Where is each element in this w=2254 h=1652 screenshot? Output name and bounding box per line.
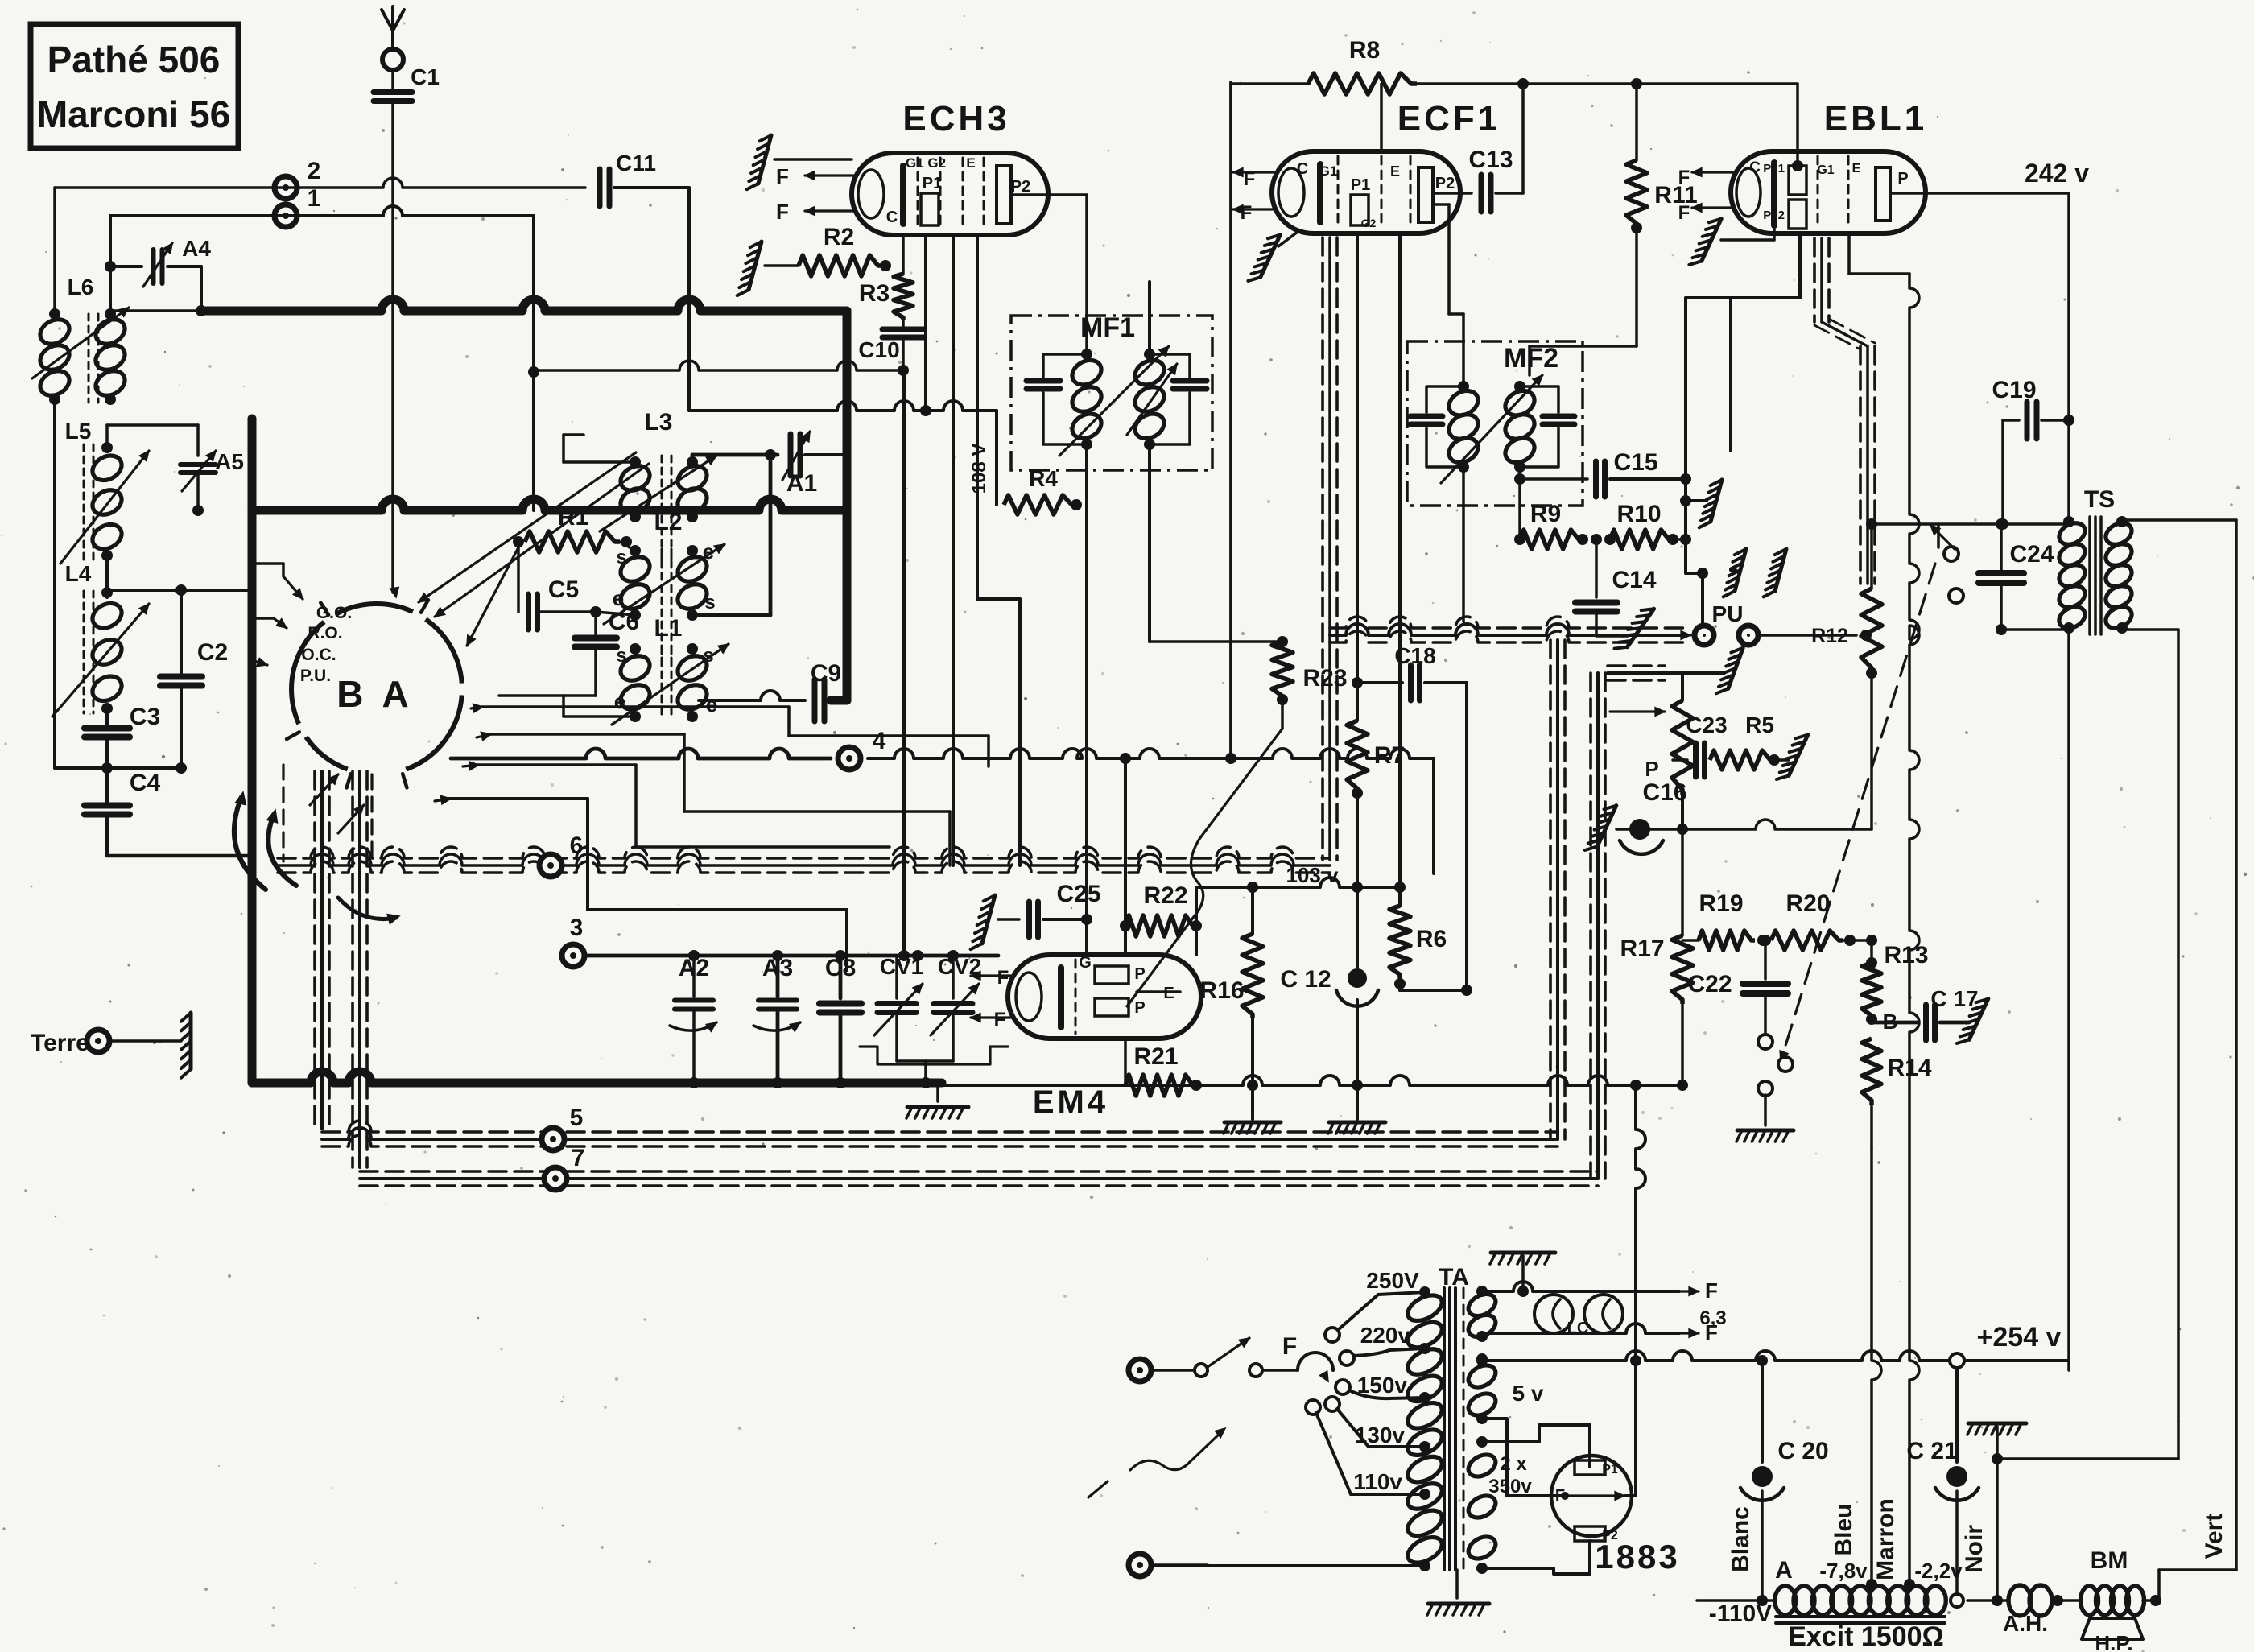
- voltage tap selector: [1306, 1292, 1425, 1494]
- resistor R20: [1771, 890, 1877, 950]
- trimmer capacitor A3: [753, 950, 800, 1088]
- svg-text:C1: C1: [411, 64, 440, 89]
- svg-text:P: P: [1134, 965, 1145, 983]
- capacitor C20: [1740, 1367, 1829, 1606]
- wire L1 loop: [563, 696, 635, 717]
- svg-text:250V: 250V: [1366, 1268, 1419, 1293]
- svg-text:130v: 130v: [1355, 1423, 1406, 1448]
- shielded wire 6: [278, 832, 1330, 877]
- rotor arrow of BA: [234, 792, 399, 924]
- ground under switch: [1737, 1129, 1794, 1133]
- svg-text:E: E: [966, 155, 975, 171]
- svg-text:2 x: 2 x: [1500, 1453, 1527, 1475]
- mains terminal top: [1129, 1359, 1193, 1381]
- wire C15 down to PU: [1686, 539, 1708, 624]
- svg-text:Noir: Noir: [1961, 1525, 1988, 1573]
- svg-text:R17: R17: [1620, 935, 1664, 962]
- TA core: [1444, 1288, 1463, 1570]
- svg-text:P1: P1: [1602, 1463, 1618, 1476]
- dial lamps LC: [1534, 1291, 1623, 1337]
- ground at Terre: [189, 1013, 193, 1069]
- pickup terminals PU: [1695, 601, 1872, 647]
- svg-text:P: P: [1134, 999, 1145, 1017]
- capacitor C6: [499, 609, 639, 696]
- ground at R5: [1789, 735, 1808, 776]
- capacitor C9: [699, 660, 847, 721]
- resistor R6: [1389, 887, 1472, 996]
- tube ECF1: [1272, 99, 1501, 233]
- variable capacitor CV2: [860, 950, 1008, 1088]
- svg-text:A: A: [1775, 1557, 1793, 1584]
- svg-text:F: F: [1244, 168, 1256, 190]
- terminal 3 and wire 3: [562, 915, 998, 967]
- ground at C16: [1597, 806, 1616, 847]
- svg-text:F: F: [1705, 1278, 1718, 1303]
- terminal 4 and wire 4: [451, 728, 1434, 873]
- wire left vertical: [53, 188, 56, 316]
- wire pot P wiper arrow: [1610, 708, 1665, 781]
- thick bus mid: [252, 499, 847, 510]
- wire EBL1 cathode down to Excit tap: [1909, 274, 1919, 1584]
- shielded wire EBL1 grid: [1814, 238, 1875, 584]
- svg-text:R3: R3: [859, 280, 890, 307]
- capacitor C2: [160, 590, 228, 774]
- resistor R1: [513, 504, 635, 612]
- potentiometer R12: [1861, 518, 1938, 679]
- vertical ECF1 E down: [1398, 233, 1402, 887]
- shielded vertical to detector: [1591, 666, 1724, 1179]
- ground at EBL1: [1689, 219, 1774, 265]
- svg-text:Vert: Vert: [2201, 1514, 2227, 1559]
- svg-text:C2: C2: [197, 639, 228, 666]
- svg-text:R16: R16: [1199, 977, 1244, 1004]
- svg-text:TA: TA: [1439, 1264, 1469, 1291]
- svg-text:150v: 150v: [1357, 1373, 1408, 1398]
- coil L1: [612, 615, 729, 725]
- wire 460 horizontal: [534, 361, 903, 370]
- svg-text:C9: C9: [811, 660, 841, 687]
- svg-text:F: F: [1678, 202, 1690, 224]
- BA spoke staircase 1: [471, 704, 989, 766]
- svg-text:1883: 1883: [1595, 1538, 1679, 1576]
- wire -110V: [1697, 1600, 1776, 1627]
- svg-text:-7,8v: -7,8v: [1819, 1559, 1868, 1583]
- terminal 2: [275, 158, 320, 199]
- wire C3-C4: [55, 737, 181, 803]
- arrows into BA neck: [310, 774, 364, 833]
- svg-text:R19: R19: [1699, 890, 1743, 917]
- wire +254v rail: [1476, 1322, 2069, 1368]
- wire ECH3 P2 to MF1: [1011, 195, 1087, 354]
- resistor R13: [1862, 940, 1929, 1034]
- svg-text:+254 v: +254 v: [1977, 1322, 2062, 1353]
- ground near C21: [1967, 1423, 2178, 1606]
- resistor R4: [1004, 466, 1082, 514]
- Terre terminal: [31, 1030, 181, 1056]
- svg-text:EM4: EM4: [1033, 1084, 1108, 1120]
- capacitor C23 and resistor R5: [1673, 712, 1789, 777]
- svg-text:P2: P2: [1435, 175, 1455, 192]
- svg-text:C19: C19: [1992, 377, 2036, 403]
- svg-text:H.P.: H.P.: [2095, 1631, 2132, 1652]
- svg-text:4: 4: [873, 728, 886, 754]
- wire EM4 E to R16: [1161, 990, 1180, 993]
- fuse F: [1262, 1333, 1333, 1381]
- switch near C22: [1758, 1035, 1793, 1125]
- svg-text:TS: TS: [2084, 486, 2115, 513]
- capacitor C15: [1514, 298, 1691, 545]
- thick bottom bus continuation: [942, 1076, 1682, 1085]
- svg-text:C6: C6: [609, 609, 639, 635]
- ground under CV: [906, 1083, 968, 1118]
- svg-text:C13: C13: [1468, 147, 1513, 173]
- band labels G.O. R.O. O.C. P.U.: [300, 604, 352, 685]
- resistor R21: [1125, 1039, 1202, 1096]
- rectifier tube 1883: [1550, 1456, 1680, 1576]
- wire 1: [105, 206, 539, 510]
- capacitor C17: [1872, 986, 1979, 1040]
- wire MF1 right coil up: [1148, 282, 1151, 354]
- svg-text:L6: L6: [68, 275, 94, 299]
- svg-text:PU: PU: [1712, 601, 1744, 626]
- svg-text:L2: L2: [654, 509, 682, 535]
- resistor R23: [1150, 636, 1348, 705]
- vertical from ECH3 E: [977, 235, 1020, 865]
- ground at ECH3 top: [747, 135, 852, 189]
- tone switch: [1930, 524, 1963, 603]
- transformer MF1: [1026, 312, 1207, 456]
- ground TA core bottom: [1427, 1570, 1489, 1615]
- svg-text:C5: C5: [548, 576, 579, 603]
- svg-text:3: 3: [570, 915, 584, 941]
- wire EM4 G: [1085, 919, 1088, 955]
- svg-text:108 V: 108 V: [968, 444, 990, 494]
- mains switch: [1195, 1338, 1262, 1377]
- trimmer capacitor A1: [782, 432, 847, 497]
- svg-text:103 v: 103 v: [1286, 863, 1339, 887]
- svg-text:G1: G1: [1817, 163, 1834, 177]
- capacitor C13: [1433, 84, 1523, 212]
- resistor R14: [1862, 1039, 1932, 1147]
- svg-text:R1: R1: [558, 504, 588, 531]
- svg-text:Bleu: Bleu: [1831, 1503, 1857, 1555]
- svg-text:C3: C3: [130, 704, 160, 730]
- wire R14 down to Excit tap: [1872, 1147, 1881, 1584]
- capacitor C8: [819, 950, 861, 1088]
- svg-text:F: F: [1241, 202, 1253, 224]
- svg-text:s: s: [616, 645, 626, 667]
- shielded wire 5: [322, 1105, 1558, 1150]
- svg-text:C 21: C 21: [1906, 1438, 1957, 1464]
- capacitor C21: [1906, 1368, 1979, 1607]
- thick bus bottom: [252, 1072, 942, 1083]
- wire 1883 filament to +254v: [1624, 1080, 1645, 1496]
- BA diagonal spokes to L3: [419, 452, 649, 617]
- svg-text:350v: 350v: [1488, 1476, 1532, 1497]
- svg-text:PJ1: PJ1: [1763, 162, 1785, 176]
- svg-text:6,3: 6,3: [1699, 1307, 1726, 1329]
- svg-text:Marconi 56: Marconi 56: [37, 93, 230, 135]
- resistor R7: [1347, 677, 1405, 887]
- svg-text:C15: C15: [1613, 449, 1657, 476]
- svg-text:P.U.: P.U.: [300, 667, 331, 685]
- svg-text:L1: L1: [654, 615, 682, 642]
- svg-text:F: F: [1282, 1333, 1297, 1360]
- coil L6: [32, 275, 129, 405]
- coil L5: [60, 419, 149, 564]
- thick bus right vertical: [831, 311, 847, 700]
- svg-text:L5: L5: [65, 419, 92, 444]
- wire TS bottom-right: [2122, 630, 2178, 1459]
- capacitor C19: [1992, 377, 2074, 524]
- potentiometer P: [1672, 673, 1693, 835]
- svg-text:B A: B A: [336, 673, 414, 715]
- choke AH: [1967, 1585, 2082, 1636]
- capacitor C18: [1357, 643, 1467, 990]
- svg-text:F: F: [994, 1009, 1006, 1030]
- ground under C12: [1329, 1121, 1385, 1125]
- transformer TA 5V winding: [1464, 1353, 1550, 1496]
- svg-text:P: P: [1897, 170, 1908, 188]
- voice coil BM: [2081, 1547, 2162, 1615]
- svg-text:E: E: [1163, 985, 1174, 1002]
- tube EM4: [1008, 954, 1201, 1120]
- ground above heater winding: [1490, 1253, 1555, 1297]
- svg-text:G1: G1: [1319, 163, 1338, 179]
- ground at C17: [1969, 999, 1988, 1040]
- ground at C14: [1627, 609, 1653, 647]
- BA spoke staircase 4: [435, 796, 847, 971]
- transformer TA HT winding 2x350v: [1464, 1425, 1590, 1574]
- wire Vert link: [2159, 1570, 2236, 1600]
- thick bus stub: [248, 419, 257, 510]
- svg-text:2: 2: [308, 158, 321, 184]
- svg-text:R6: R6: [1416, 926, 1447, 952]
- svg-text:G: G: [1079, 954, 1092, 972]
- svg-text:5: 5: [570, 1105, 584, 1131]
- svg-text:C10: C10: [858, 337, 899, 362]
- capacitor C22: [1687, 935, 1788, 1034]
- svg-text:A5: A5: [215, 449, 244, 474]
- svg-text:F: F: [997, 967, 1009, 989]
- transformer MF1 box: [1011, 316, 1212, 470]
- shielded vertical from ECF1 G: [1328, 237, 1331, 860]
- capacitor C16: [1616, 779, 1687, 854]
- svg-text:C: C: [886, 209, 898, 226]
- svg-text:R21: R21: [1133, 1043, 1178, 1070]
- svg-text:6: 6: [570, 832, 584, 859]
- wire L5 top to A5: [107, 425, 198, 456]
- svg-text:R8: R8: [1349, 37, 1380, 64]
- BA spoke staircase 2: [477, 732, 950, 865]
- heater arrows F of ECF1: [1233, 168, 1274, 224]
- wire L3 right to A1: [692, 449, 778, 615]
- mech dashed link: [1781, 564, 1935, 1061]
- trimmer capacitor A5: [180, 449, 244, 516]
- speaker HP: [2082, 1618, 2143, 1652]
- capacitor C12: [1280, 887, 1378, 1119]
- svg-text:C: C: [1749, 159, 1761, 176]
- capacitor C1: [374, 64, 440, 593]
- svg-text:s: s: [616, 547, 626, 568]
- ground under R16: [1224, 1121, 1281, 1125]
- svg-text:O.C.: O.C.: [301, 646, 336, 664]
- svg-text:F: F: [1678, 167, 1690, 188]
- svg-text:s: s: [704, 592, 715, 613]
- svg-text:BM: BM: [2091, 1547, 2128, 1574]
- svg-text:G1 G2: G1 G2: [906, 155, 946, 171]
- wire L3 top-left: [563, 435, 635, 462]
- vertical from ECH3 cathode: [902, 370, 906, 954]
- svg-text:Terre: Terre: [31, 1030, 89, 1056]
- ground of shield: [1728, 648, 1743, 689]
- svg-text:C11: C11: [616, 151, 656, 176]
- heater arrows F of ECH3: [776, 164, 853, 224]
- svg-text:C14: C14: [1612, 567, 1656, 593]
- svg-text:220v: 220v: [1360, 1323, 1411, 1348]
- svg-text:R22: R22: [1143, 882, 1187, 909]
- svg-text:A1: A1: [786, 470, 817, 497]
- resistor R2: [765, 224, 891, 276]
- svg-text:C25: C25: [1056, 881, 1100, 907]
- transformer TA heater winding 6.3V: [1464, 1278, 1726, 1344]
- svg-text:ECH3: ECH3: [902, 99, 1009, 138]
- svg-text:1: 1: [308, 185, 321, 212]
- svg-text:C: C: [1297, 160, 1308, 178]
- svg-text:Marron: Marron: [1872, 1498, 1899, 1580]
- svg-text:-110V: -110V: [1709, 1600, 1772, 1627]
- heater arrows F of EM4: [971, 967, 1010, 1030]
- wire MF2 left coil down: [1462, 467, 1465, 622]
- svg-text:MF1: MF1: [1080, 312, 1135, 343]
- wavy mechanical link: [1127, 700, 1282, 1006]
- svg-text:R11: R11: [1654, 182, 1697, 209]
- svg-text:C16: C16: [1642, 779, 1686, 806]
- capacitor C4: [85, 770, 252, 856]
- trimmer capacitor A2: [670, 950, 716, 1088]
- resistor R11: [1626, 84, 1698, 346]
- terminal 1: [275, 185, 320, 227]
- variable capacitor CV1: [874, 954, 923, 1061]
- resistor R8: [1231, 37, 1798, 94]
- resistor R17: [1620, 829, 1693, 1091]
- svg-text:e: e: [706, 692, 717, 717]
- wire EBL1 E down: [1847, 233, 1851, 274]
- coil L4: [52, 561, 149, 717]
- svg-text:R23: R23: [1302, 665, 1347, 692]
- capacitor C5: [529, 576, 636, 630]
- svg-text:C4: C4: [130, 770, 161, 796]
- svg-text:PJ2: PJ2: [1763, 209, 1785, 222]
- wire MF1 left coil down: [1085, 444, 1088, 919]
- svg-text:C 12: C 12: [1280, 966, 1331, 993]
- svg-text:C22: C22: [1687, 971, 1732, 997]
- svg-text:R20: R20: [1785, 890, 1830, 917]
- svg-text:C24: C24: [2009, 541, 2054, 568]
- svg-text:R12: R12: [1811, 625, 1848, 647]
- svg-text:242 v: 242 v: [2025, 159, 2089, 188]
- transformer TS: [2055, 486, 2135, 634]
- svg-text:ECF1: ECF1: [1397, 99, 1501, 138]
- svg-text:EBL1: EBL1: [1824, 99, 1927, 138]
- ground at R2: [749, 242, 762, 290]
- svg-text:P: P: [1645, 757, 1658, 781]
- svg-text:-2,2v: -2,2v: [1914, 1559, 1963, 1583]
- tube EBL1: [1731, 99, 1927, 233]
- svg-text:R9: R9: [1530, 501, 1561, 527]
- thick bus top: [201, 299, 847, 311]
- coil L2: [604, 509, 724, 659]
- resistor R9: [1514, 501, 1588, 549]
- svg-text:E: E: [1852, 162, 1861, 176]
- vertical from ECH3 P1: [924, 235, 927, 411]
- capacitor C10: [858, 320, 924, 376]
- labels wire colours: [1728, 1498, 2227, 1580]
- svg-text:Pathé 506: Pathé 506: [47, 39, 221, 81]
- wire R12 bottom to C16 node: [1682, 673, 1872, 829]
- wire TA primary bottom: [1151, 1564, 1425, 1567]
- arrow into BA from antenna: [390, 587, 399, 597]
- svg-text:5 v: 5 v: [1513, 1381, 1544, 1406]
- svg-text:7: 7: [572, 1145, 585, 1171]
- wire ECF1 G top: [1380, 84, 1383, 150]
- field coil Excit 1500: [1775, 1557, 1963, 1652]
- svg-text:R2: R2: [824, 224, 854, 250]
- transformer MF2: [1410, 343, 1575, 483]
- rotary switch BA: [287, 600, 462, 787]
- ground at ECF1: [1248, 232, 1298, 281]
- wire ECF1 P2 to MF2: [1433, 204, 1449, 242]
- tube ECH3: [852, 99, 1048, 235]
- svg-text:G2: G2: [1361, 217, 1377, 229]
- resistor R16: [1199, 882, 1263, 1119]
- ground near PU: [1724, 549, 1786, 597]
- capacitor C24: [1938, 518, 2069, 635]
- svg-text:R5: R5: [1745, 712, 1774, 737]
- shielded wire 7: [360, 1145, 1598, 1190]
- heater arrows F of EBL1: [1678, 167, 1732, 224]
- svg-text:Excit 1500Ω: Excit 1500Ω: [1788, 1621, 1944, 1652]
- vertical from R8 corner: [1225, 82, 1236, 764]
- BA spokes left arrows: [252, 564, 303, 667]
- capacitor C11: [600, 151, 689, 411]
- coil L3: [600, 409, 716, 564]
- title box Pathé 506 / Marconi 56: [31, 24, 238, 148]
- vertical ECF1 P1 down: [1356, 233, 1359, 683]
- vertical from ECH3 G: [952, 235, 955, 865]
- transformer TA primary: [1353, 1264, 1469, 1571]
- svg-text:E: E: [1390, 163, 1400, 180]
- ground stubs right of C15 column: [1680, 480, 1736, 570]
- svg-text:Blanc: Blanc: [1728, 1506, 1754, 1572]
- svg-text:LC: LC: [1567, 1320, 1589, 1337]
- svg-text:R10: R10: [1616, 501, 1661, 527]
- BA spoke staircase 3: [463, 762, 890, 847]
- svg-text:A4: A4: [182, 236, 211, 261]
- mains terminal bottom: [1129, 1554, 1207, 1576]
- wire L4 top: [107, 555, 252, 597]
- wire R11 down to MF2: [1529, 346, 1637, 375]
- wire EBL1 PJ2 down: [1686, 233, 1800, 451]
- resistor R10: [1604, 501, 1686, 549]
- svg-text:L4: L4: [65, 561, 92, 586]
- wire 2 to C11: [55, 178, 585, 188]
- svg-text:P2: P2: [1011, 178, 1030, 196]
- svg-text:MF2: MF2: [1504, 343, 1558, 374]
- svg-text:C 17: C 17: [1930, 986, 1978, 1011]
- thick bus left vertical: [248, 510, 257, 1083]
- shielded vertical to PU line: [1330, 617, 1686, 1139]
